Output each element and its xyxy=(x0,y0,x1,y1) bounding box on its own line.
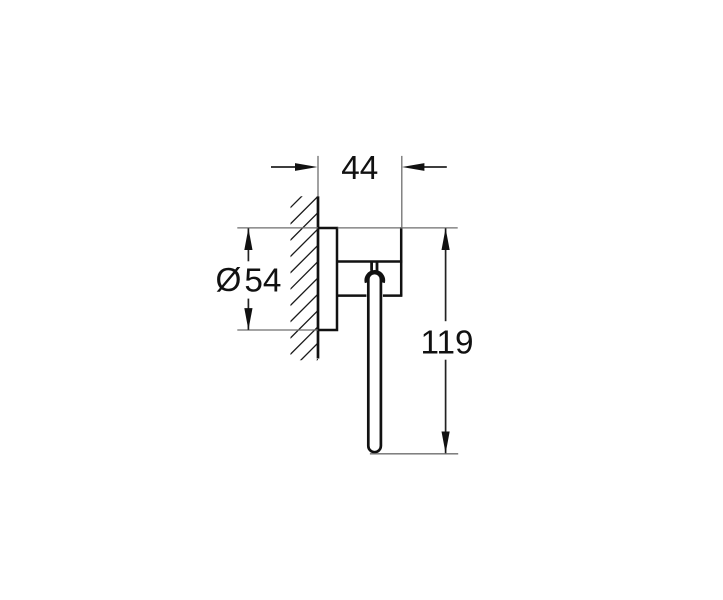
holder housing middle seam xyxy=(337,260,402,263)
dimension 119 arrowhead down xyxy=(442,432,450,454)
holder housing bottom edge right segment xyxy=(383,294,403,297)
svg-text:44: 44 xyxy=(341,150,378,187)
dimension 44 leader line right xyxy=(423,166,447,168)
dimension 119 line lower segment xyxy=(445,360,447,454)
pivot knob arc xyxy=(366,272,383,283)
dimension Ø54 line upper segment xyxy=(247,228,249,261)
dimension 44 arrowhead right (points left) xyxy=(402,163,424,171)
svg-text:54: 54 xyxy=(244,262,281,299)
svg-text:119: 119 xyxy=(420,324,473,361)
extension line: dim 44 right (housing front) xyxy=(401,156,403,228)
dimension Ø54 line lower segment xyxy=(247,299,249,330)
wall hatching xyxy=(290,180,318,387)
svg-text:Ø: Ø xyxy=(216,262,242,299)
extension line: dim 44 left (wall face) xyxy=(317,156,319,197)
dimension 119 line upper segment xyxy=(445,228,447,321)
dimension 119 arrowhead up xyxy=(442,228,450,250)
dimension 44 arrowhead left (points right) xyxy=(295,163,318,171)
pivot pin right edge xyxy=(376,262,379,271)
wall line xyxy=(317,196,320,358)
extension line: Ø54 top / 119 top (horizontal) xyxy=(237,227,318,229)
dimension 44 leader line left xyxy=(271,166,297,168)
wall plate Ø54 (escutcheon, side view) xyxy=(318,228,337,330)
extension line: 119 bottom (horizontal, ring bottom) xyxy=(370,453,458,455)
holder housing bottom edge left segment xyxy=(337,294,366,297)
dimension Ø54 arrowhead up xyxy=(244,228,252,250)
paper holder ring xyxy=(368,273,381,452)
dimension Ø54 arrowhead down xyxy=(244,308,252,330)
pivot pin left edge xyxy=(370,262,373,271)
extension line: Ø54 bottom (horizontal) xyxy=(237,329,318,331)
holder housing right face xyxy=(400,227,403,295)
